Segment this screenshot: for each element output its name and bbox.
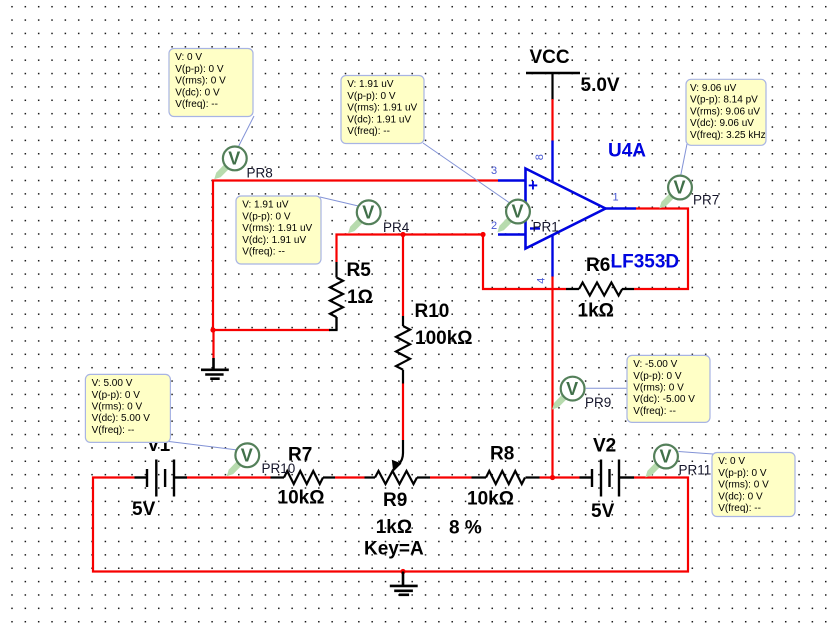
svg-text:V(p-p): 8.14 pV: V(p-p): 8.14 pV <box>690 95 758 106</box>
svg-text:V2: V2 <box>593 436 616 457</box>
probe tooltip PR8 <box>169 49 253 117</box>
node junction dot ground tap at (403,571.5) <box>400 569 405 574</box>
svg-text:2: 2 <box>491 220 497 232</box>
svg-text:1Ω: 1Ω <box>347 287 373 308</box>
power VCC symbol <box>526 47 620 96</box>
wire top rail from node PR8 corner to op-amp pin 3 <box>213 181 498 331</box>
svg-text:V: 0 V: V: 0 V <box>718 456 745 467</box>
node junction dot PR4 at (403,234.5) <box>400 232 405 237</box>
probe pointer line PR9 <box>586 387 627 389</box>
probe pointer line PR8 <box>239 116 255 147</box>
wire R8 to V2 left node <box>540 476 580 478</box>
wire feedback: pin2 junction down and right to R6 left <box>483 235 566 290</box>
svg-text:100kΩ: 100kΩ <box>415 328 473 349</box>
wire VCC stem: black top, red middle <box>551 73 553 100</box>
wire bottom rail and left loop <box>93 478 688 572</box>
battery V1 5V <box>132 435 187 520</box>
probe tooltip PR4 <box>236 196 321 264</box>
svg-text:PR1: PR1 <box>533 220 559 235</box>
potentiometer R9 <box>364 471 482 560</box>
svg-text:5.0V: 5.0V <box>581 75 620 96</box>
probe PR10 <box>227 443 260 476</box>
svg-text:V(freq): --: V(freq): -- <box>718 503 761 514</box>
svg-text:V(dc): 5.00 V: V(dc): 5.00 V <box>92 413 151 424</box>
wire R9 to R8 <box>430 476 472 478</box>
svg-text:V(p-p): 0 V: V(p-p): 0 V <box>175 64 224 75</box>
svg-text:V(dc): -5.00 V: V(dc): -5.00 V <box>633 394 695 405</box>
probe PR11 <box>645 445 678 478</box>
node junction dot pin2 at (483,234.5) <box>480 232 485 237</box>
svg-text:10kΩ: 10kΩ <box>467 489 514 510</box>
op-amp U4A LF353D <box>491 141 679 284</box>
svg-text:PR7: PR7 <box>693 193 719 208</box>
probe PR4 <box>348 200 381 233</box>
svg-text:Key=A: Key=A <box>364 539 424 560</box>
probe PR8 <box>214 147 247 180</box>
svg-text:R9: R9 <box>383 490 407 511</box>
svg-text:V: 1.91 uV: V: 1.91 uV <box>242 200 289 211</box>
svg-text:V(rms): 0 V: V(rms): 0 V <box>175 76 226 87</box>
probe tooltip PR10 <box>85 374 170 442</box>
probe pointer line PR1 <box>423 143 509 203</box>
svg-text:V: -5.00 V: V: -5.00 V <box>633 359 677 370</box>
svg-text:V(dc): 1.91 uV: V(dc): 1.91 uV <box>242 235 306 246</box>
wire R10 branch down from node PR4 <box>402 235 404 317</box>
svg-text:V(dc): 1.91 uV: V(dc): 1.91 uV <box>347 114 411 125</box>
svg-text:4: 4 <box>535 278 547 284</box>
node junction dot at (213,330) <box>210 327 215 332</box>
svg-text:PR10: PR10 <box>262 461 296 476</box>
wire V1 right to R7 <box>187 476 271 478</box>
svg-text:V: 1.91 uV: V: 1.91 uV <box>347 79 394 90</box>
svg-text:1kΩ: 1kΩ <box>578 301 614 322</box>
svg-text:V(p-p): 0 V: V(p-p): 0 V <box>92 390 141 401</box>
svg-text:VCC: VCC <box>530 47 570 68</box>
wire negative supply: pin4 down to bottom rail <box>551 276 553 478</box>
probe tooltip PR11 <box>712 453 795 517</box>
svg-text:V(p-p): 0 V: V(p-p): 0 V <box>242 211 291 222</box>
resistor R6 <box>566 255 634 322</box>
wire node at left vertical to ground and R5 bottom <box>213 329 330 331</box>
wire node A horizontal: R5 top to pin2 junction <box>337 235 484 263</box>
wire ground stem red segment <box>212 330 214 358</box>
svg-text:5V: 5V <box>591 501 615 522</box>
svg-text:V(p-p): 0 V: V(p-p): 0 V <box>633 371 682 382</box>
node junction dot at (552.5,477.5) <box>550 475 555 480</box>
svg-text:V(rms): 0 V: V(rms): 0 V <box>718 480 769 491</box>
svg-text:V: 0 V: V: 0 V <box>175 52 202 63</box>
svg-text:8: 8 <box>534 154 546 160</box>
svg-text:V(freq): --: V(freq): -- <box>175 99 218 110</box>
svg-text:V(dc): 0 V: V(dc): 0 V <box>718 491 763 502</box>
svg-text:1: 1 <box>613 192 619 204</box>
probe tooltip PR9 <box>627 355 710 422</box>
wire from R6 right up to op-amp output <box>634 209 688 290</box>
svg-text:LF353D: LF353D <box>611 252 680 273</box>
svg-text:R8: R8 <box>490 444 514 465</box>
svg-text:V(freq): --: V(freq): -- <box>347 126 390 137</box>
svg-text:V(rms): 9.06 uV: V(rms): 9.06 uV <box>690 106 760 117</box>
probe tooltip PR7 <box>686 79 766 145</box>
probe PR1 <box>497 200 530 233</box>
wire from R10 bottom to potentiometer wiper <box>402 384 404 441</box>
ground symbol bottom <box>390 572 418 595</box>
svg-text:V(freq): --: V(freq): -- <box>633 406 676 417</box>
svg-text:PR8: PR8 <box>247 166 273 181</box>
svg-text:U4A: U4A <box>608 141 646 162</box>
svg-text:R5: R5 <box>347 260 372 281</box>
probe pointer line PR7 <box>681 144 687 175</box>
svg-text:PR11: PR11 <box>679 463 712 478</box>
ground symbol left <box>201 358 229 379</box>
probe tooltip PR1 <box>341 76 424 144</box>
svg-text:V(freq): 3.25 kHz: V(freq): 3.25 kHz <box>690 130 766 141</box>
svg-text:V: 9.06 uV: V: 9.06 uV <box>690 83 737 94</box>
svg-text:V(p-p): 0 V: V(p-p): 0 V <box>718 468 767 479</box>
svg-text:V(p-p): 0 V: V(p-p): 0 V <box>347 91 396 102</box>
probe pointer line PR4 <box>320 197 361 207</box>
svg-text:3: 3 <box>491 165 497 177</box>
svg-text:PR4: PR4 <box>383 220 410 235</box>
svg-text:V(rms): 0 V: V(rms): 0 V <box>633 383 684 394</box>
probe pointer line PR11 <box>679 452 714 455</box>
probe PR7 <box>659 176 692 209</box>
resistor R7 <box>271 445 336 509</box>
probe pointer line PR10 <box>169 442 238 451</box>
svg-text:V(freq): --: V(freq): -- <box>242 247 285 258</box>
svg-text:5V: 5V <box>132 499 156 520</box>
svg-text:V(rms): 1.91 uV: V(rms): 1.91 uV <box>242 223 312 234</box>
resistor R5 <box>330 260 373 330</box>
battery V2 5V <box>580 436 635 523</box>
svg-text:V(dc): 9.06 uV: V(dc): 9.06 uV <box>690 118 754 129</box>
svg-text:V(rms): 1.91 uV: V(rms): 1.91 uV <box>347 103 417 114</box>
svg-text:V(rms): 0 V: V(rms): 0 V <box>92 402 143 413</box>
svg-text:PR9: PR9 <box>585 395 611 410</box>
probe PR9 <box>552 377 585 410</box>
svg-text:R10: R10 <box>415 301 450 322</box>
svg-text:R6: R6 <box>586 255 610 276</box>
svg-text:V(freq): --: V(freq): -- <box>92 425 135 436</box>
resistor R8 <box>467 444 540 510</box>
svg-text:+: + <box>528 176 538 195</box>
svg-text:8 %: 8 % <box>449 518 482 539</box>
svg-text:V: 5.00 V: V: 5.00 V <box>92 378 133 389</box>
resistor R10 <box>396 301 473 384</box>
svg-text:1kΩ: 1kΩ <box>376 517 412 538</box>
svg-text:10kΩ: 10kΩ <box>278 488 325 509</box>
wire R7 to R9 <box>335 476 365 478</box>
svg-text:V(dc): 0 V: V(dc): 0 V <box>175 87 220 98</box>
